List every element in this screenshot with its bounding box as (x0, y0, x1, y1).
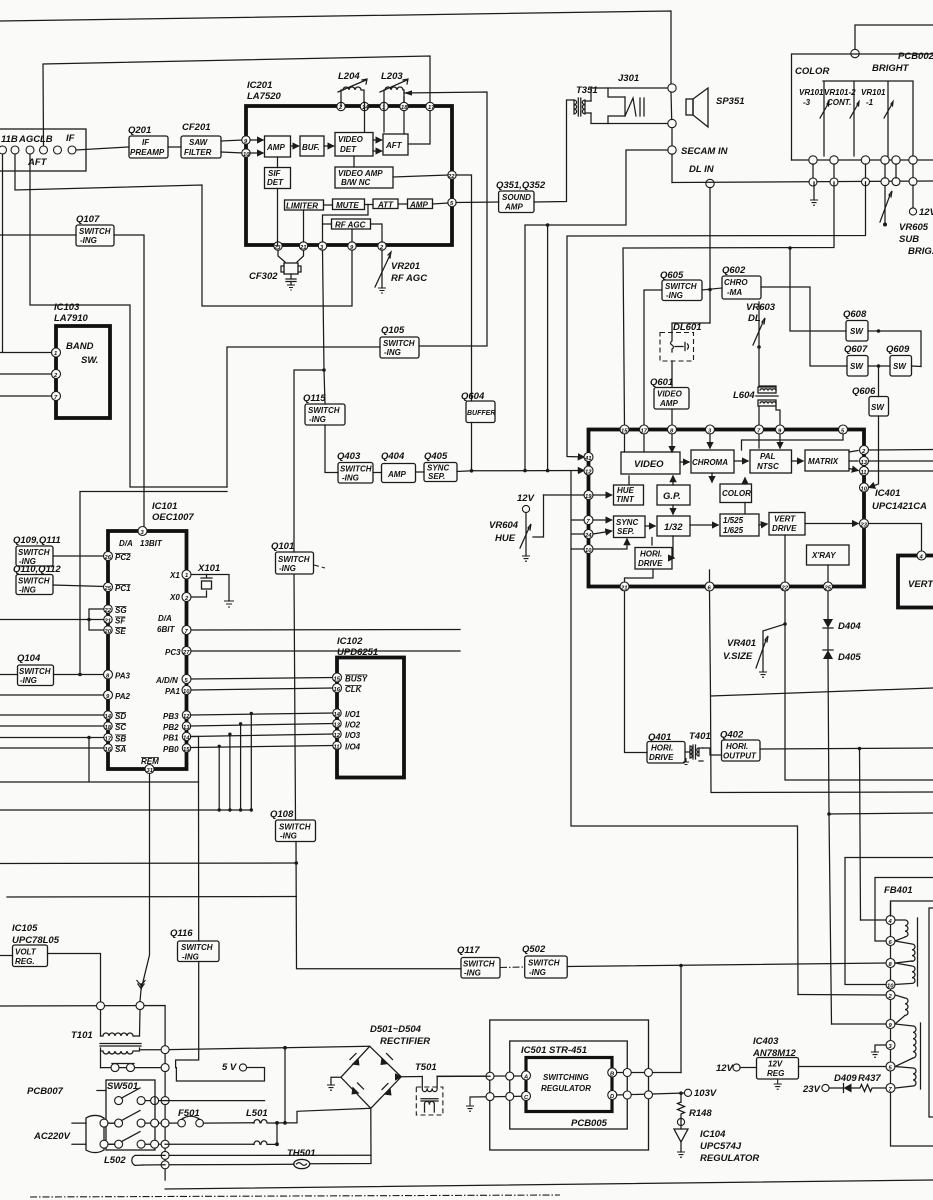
potentiometer VR101-2 contrast (824, 82, 859, 156)
svg-text:PAL: PAL (760, 452, 776, 461)
diode D409 (829, 1073, 857, 1093)
svg-text:B/W NC: B/W NC (341, 178, 371, 187)
wire Q117 Q502 link (500, 966, 525, 969)
terminal 12V left (716, 1063, 757, 1074)
svg-text:SYNC: SYNC (616, 518, 638, 527)
wire rgb outputs right (869, 450, 933, 472)
wire Q108 down to Q117 (296, 842, 461, 969)
svg-text:COLOR: COLOR (795, 66, 829, 77)
svg-text:27: 27 (182, 650, 190, 656)
svg-text:SC: SC (115, 723, 126, 732)
svg-text:14: 14 (362, 105, 369, 111)
svg-text:Q110,Q112: Q110,Q112 (13, 564, 61, 575)
svg-text:VR605: VR605 (899, 222, 929, 233)
svg-text:SWITCH: SWITCH (528, 959, 560, 968)
svg-text:PB3: PB3 (163, 712, 179, 721)
svg-text:23: 23 (860, 523, 868, 529)
wire 6BIT PC3 stubs (191, 630, 460, 652)
node SECAM IN (668, 146, 729, 157)
flyback FB401 (884, 885, 913, 1093)
svg-text:SW: SW (850, 362, 864, 371)
amplifier Q351 Q352 sound amp (496, 180, 546, 213)
svg-text:PB0: PB0 (163, 745, 179, 754)
wire PA1 CLK link (191, 688, 333, 690)
wire PA2 feed (0, 694, 104, 696)
svg-text:SF: SF (115, 617, 126, 626)
svg-text:SEP.: SEP. (617, 527, 634, 536)
svg-text:CHROMA: CHROMA (692, 458, 728, 467)
svg-text:SB: SB (115, 735, 126, 744)
svg-text:PCB002: PCB002 (898, 51, 933, 62)
wire D line output 103V (617, 1093, 684, 1095)
transformer T501 (415, 1062, 457, 1115)
amplifier Q601 video amp (650, 377, 689, 409)
node Q108 bus junction (295, 861, 299, 865)
wire PB0 IO4 link (191, 746, 333, 748)
amp block in IC201 (265, 136, 291, 157)
svg-text:-1: -1 (866, 98, 874, 107)
power supply middle box (510, 1041, 628, 1129)
tuner block (0, 129, 86, 171)
svg-text:IF: IF (142, 138, 150, 147)
svg-text:VOLT: VOLT (15, 948, 37, 957)
fuse F501 (169, 1108, 254, 1127)
wire pin6 retrace rails (710, 591, 933, 793)
svg-text:L501: L501 (246, 1108, 268, 1119)
svg-text:21: 21 (104, 619, 111, 625)
filter CF201 SAW (181, 122, 221, 158)
transistor Q104 switching (17, 653, 54, 686)
svg-text:PREAMP: PREAMP (130, 148, 165, 157)
svg-text:103V: 103V (694, 1088, 717, 1099)
svg-text:BAND: BAND (66, 341, 94, 352)
svg-text:11B: 11B (1, 134, 18, 145)
svg-text:IC403: IC403 (753, 1036, 779, 1047)
svg-text:15: 15 (183, 747, 190, 753)
wire VR604 to pin19 (544, 494, 585, 496)
potentiometer VR603 DL (746, 302, 776, 386)
svg-text:Q109,Q111: Q109,Q111 (13, 535, 61, 546)
svg-text:VR401: VR401 (727, 638, 756, 649)
transistor Q109 Q111 switching (13, 535, 61, 566)
svg-text:PC1: PC1 (115, 584, 131, 593)
wire video line into IC401 pin12 (472, 470, 585, 472)
svg-text:PCB007: PCB007 (27, 1086, 64, 1097)
svg-text:Q117: Q117 (457, 945, 480, 956)
IC201 bottom pins (273, 242, 386, 251)
svg-text:REG: REG (767, 1069, 784, 1078)
node Q115 junction (322, 368, 326, 372)
svg-text:IC101: IC101 (152, 501, 177, 512)
svg-text:11: 11 (861, 470, 867, 476)
wire video aux vertical (547, 225, 549, 471)
wire IC105 out to T101 (48, 954, 101, 1002)
svg-text:HORI.: HORI. (726, 742, 748, 751)
svg-text:-ING: -ING (384, 348, 401, 357)
svg-text:VR603: VR603 (746, 302, 776, 313)
wire SECAM node to DL bus (671, 154, 673, 183)
svg-text:DL IN: DL IN (689, 164, 715, 175)
wire AGC loop top rail (43, 56, 430, 146)
wire DL IN bus (672, 181, 933, 183)
potentiometer VR101-1 (861, 82, 893, 156)
svg-text:-ING: -ING (464, 969, 481, 978)
svg-text:LB: LB (40, 134, 53, 145)
svg-text:BRIGHT: BRIGHT (872, 63, 910, 74)
wire bottom border (165, 1180, 933, 1189)
svg-text:R148: R148 (689, 1108, 712, 1119)
svg-text:VR101: VR101 (799, 88, 824, 97)
transistor Q606 switch (852, 386, 889, 416)
sync sep block in IC401 (614, 516, 646, 538)
transistor Q101 switching (271, 541, 325, 574)
svg-text:17: 17 (105, 737, 112, 743)
svg-text:-ING: -ING (19, 586, 36, 595)
IC402 vert output (898, 551, 933, 608)
svg-text:PA3: PA3 (115, 672, 131, 681)
svg-text:PCB005: PCB005 (571, 1118, 608, 1129)
antenna symbol REM connector (137, 980, 146, 990)
potentiometer VR201 RF AGC (375, 250, 427, 293)
svg-text:OUTPUT: OUTPUT (723, 752, 757, 761)
svg-text:SG: SG (115, 606, 127, 615)
wire Q104 to PA3 (54, 674, 105, 676)
svg-text:Q107: Q107 (76, 214, 100, 225)
wire pin22 flyback rail (785, 591, 933, 780)
ground FB pin3 (871, 1045, 886, 1057)
svg-text:D404: D404 (838, 621, 861, 632)
wire bus y810 (0, 809, 251, 811)
wire SECAM branch to video node (525, 150, 668, 471)
svg-text:16: 16 (105, 747, 112, 753)
svg-text:Q607: Q607 (844, 344, 868, 355)
filter CF302 (249, 250, 304, 290)
wire L501 to bridge bottom (277, 1108, 371, 1123)
svg-text:14: 14 (334, 712, 341, 718)
wire FB pin6 loop (875, 878, 933, 942)
wire Q104 input (0, 674, 18, 676)
svg-text:13BIT: 13BIT (140, 539, 163, 548)
FB401 winding lower (895, 1023, 921, 1089)
svg-text:J301: J301 (618, 73, 639, 84)
svg-text:L502: L502 (104, 1155, 126, 1166)
svg-text:Q108: Q108 (270, 809, 294, 820)
wire Q104 branch (80, 492, 227, 675)
FB401 right edge (929, 908, 933, 1117)
svg-text:13: 13 (861, 460, 868, 466)
rectifier D501-D504 bridge (341, 1024, 430, 1108)
wire REM down to T101 (140, 774, 150, 1002)
divider 1/32 block in IC401 (657, 516, 690, 536)
svg-text:10: 10 (243, 152, 250, 158)
wire bus y896 (7, 896, 296, 899)
IC401 UPC1421CA (589, 430, 928, 587)
svg-text:VR101: VR101 (861, 88, 886, 97)
wire Q607 to Q609 (868, 365, 890, 367)
IC101 OEC1007 (108, 501, 194, 769)
svg-text:Q404: Q404 (381, 451, 405, 462)
switch SW501 pole1 (115, 1088, 146, 1105)
svg-text:Q601: Q601 (650, 377, 673, 388)
svg-text:RECTIFIER: RECTIFIER (380, 1036, 430, 1047)
transistor Q405 sync sep (424, 451, 457, 482)
svg-text:AMP: AMP (387, 470, 406, 479)
svg-text:IF: IF (66, 133, 75, 144)
svg-text:10: 10 (887, 984, 894, 990)
svg-text:12V: 12V (716, 1063, 734, 1074)
transistor Q404 amp (381, 451, 416, 483)
vert drive block in IC401 (769, 513, 805, 536)
svg-text:AMP: AMP (504, 203, 523, 212)
terminal 12V top right (909, 185, 933, 218)
svg-text:I/O4: I/O4 (345, 743, 361, 752)
svg-text:SECAM IN: SECAM IN (681, 146, 729, 157)
wire L502 rail (169, 1154, 371, 1156)
svg-text:DRIVE: DRIVE (649, 753, 674, 762)
wire Q109 to PC2 (53, 555, 104, 557)
terminal 5V (176, 1062, 264, 1081)
IC102 UPD6251 (333, 636, 405, 778)
chroma block in IC401 (691, 450, 734, 473)
svg-text:SWITCH: SWITCH (308, 406, 340, 415)
svg-text:14: 14 (105, 714, 112, 720)
svg-text:CONT.: CONT. (827, 98, 851, 107)
xray block in IC401 (807, 545, 850, 565)
svg-text:OEC1007: OEC1007 (152, 512, 194, 523)
svg-text:Q608: Q608 (843, 309, 867, 320)
wire SG SF SE bracket (0, 609, 104, 630)
transistor Q201 IF preamp (128, 125, 168, 158)
svg-text:-ING: -ING (80, 236, 97, 245)
svg-text:-3: -3 (803, 98, 811, 107)
svg-text:R437: R437 (858, 1073, 881, 1084)
pal ntsc block in IC401 (750, 450, 792, 473)
wire tuner AGC slant to IC201 pin4 (15, 154, 352, 306)
divider 1/525 1/625 block in IC401 (720, 514, 759, 536)
svg-text:SW: SW (893, 362, 907, 371)
svg-text:PB2: PB2 (163, 723, 179, 732)
svg-text:SOUND: SOUND (502, 193, 531, 202)
transistor Q110 Q112 switching (13, 564, 61, 595)
svg-text:-ING: -ING (20, 676, 37, 685)
svg-text:Q403: Q403 (337, 451, 361, 462)
transformer T351 (574, 85, 598, 116)
svg-text:BUSY: BUSY (345, 675, 368, 684)
svg-text:-ING: -ING (182, 953, 199, 962)
wire FB pin4 left (861, 919, 887, 921)
transistor Q116 switching (170, 928, 219, 962)
AFT block in IC201 (383, 134, 408, 155)
svg-text:SWITCH: SWITCH (279, 823, 311, 832)
transistor Q107 switching (76, 214, 114, 246)
svg-text:5 V: 5 V (222, 1062, 237, 1073)
svg-text:12: 12 (183, 714, 190, 720)
wire hori out drop to FB401 pin4 (860, 749, 861, 921)
wire Q403 to Q404 (373, 472, 382, 474)
wire chroma tap C (623, 182, 834, 427)
svg-text:FB401: FB401 (884, 885, 913, 896)
transformer T101 (71, 1010, 165, 1068)
wire B line output (617, 1072, 681, 1074)
coil L203 (380, 71, 408, 102)
IC401 left pins (584, 453, 593, 555)
ground on DL bus (813, 182, 815, 200)
speaker SP351 (686, 88, 745, 127)
thermistor TH501 (169, 1108, 371, 1168)
transistor Q608 switch (843, 309, 868, 341)
wire sync feeds vertical (571, 471, 584, 549)
coil L502 (104, 1155, 165, 1166)
IC101 pin3 top (138, 527, 147, 536)
wire Q605 to Q602 (702, 288, 722, 290)
terminal 12V hue (517, 493, 535, 513)
wire DL601 top tap (672, 323, 710, 333)
svg-text:LA7520: LA7520 (247, 91, 282, 102)
svg-text:REGULATOR: REGULATOR (700, 1153, 759, 1164)
potentiometer VR605 sub bright (880, 186, 933, 258)
switch SW501 pole3 (109, 1132, 161, 1149)
resistor R148 (678, 1093, 713, 1119)
IC201 side pins (242, 136, 456, 207)
svg-text:SWITCH: SWITCH (79, 227, 111, 236)
svg-text:18: 18 (401, 105, 408, 111)
wire Q602 out loop to Q607 (761, 287, 847, 366)
regulator IC403 AN78M12 (752, 1036, 799, 1089)
buffer block in IC201 (300, 136, 324, 156)
svg-text:22: 22 (104, 608, 112, 614)
svg-text:25: 25 (104, 586, 112, 592)
svg-text:PC2: PC2 (115, 553, 131, 562)
svg-text:SWITCH: SWITCH (18, 548, 50, 557)
crystal X101 (169, 563, 234, 607)
svg-text:MUTE: MUTE (336, 201, 359, 210)
resistor R437 (852, 1073, 887, 1092)
svg-text:IC501 STR-451: IC501 STR-451 (521, 1045, 587, 1056)
svg-text:SIF: SIF (268, 169, 282, 178)
wire sound amp to T351 (534, 100, 574, 202)
video det block in IC201 (335, 133, 373, 157)
svg-text:1: 1 (185, 573, 188, 579)
wire bridge to T501 (401, 1076, 422, 1078)
wire C line ground (470, 1095, 522, 1098)
wire Q608 input (790, 248, 846, 331)
svg-text:SWITCH: SWITCH (383, 339, 415, 348)
svg-text:Q101: Q101 (271, 541, 294, 552)
mute block (333, 199, 365, 210)
wire DL601 to Q601 (671, 361, 673, 387)
wire Q110 to PC1 (53, 585, 104, 587)
transistor Q108 switching (270, 809, 316, 842)
wire Q605 input drop to IC401 (644, 290, 662, 427)
svg-text:I/O3: I/O3 (345, 731, 361, 740)
IC401 bottom pins (620, 582, 833, 592)
svg-text:11: 11 (334, 745, 340, 751)
svg-text:PC3: PC3 (165, 648, 181, 657)
IC201 internal wires (250, 139, 263, 141)
svg-text:18: 18 (105, 725, 112, 731)
wire Q608 output (868, 331, 921, 367)
wire 5V rail (169, 1046, 370, 1049)
svg-text:DRIVE: DRIVE (638, 559, 663, 568)
svg-text:IC201: IC201 (247, 80, 272, 91)
svg-text:CF302: CF302 (249, 271, 278, 282)
svg-text:CHRO: CHRO (724, 278, 748, 287)
svg-text:-ING: -ING (342, 474, 359, 483)
svg-text:L204: L204 (338, 71, 360, 82)
IC201 top pins (337, 102, 435, 111)
transistor Q117 switching (457, 945, 500, 978)
rf agc block (332, 219, 371, 229)
transistor Q105 switching (380, 325, 419, 358)
transformer T401 (683, 731, 711, 765)
gp block in IC401 (657, 485, 690, 505)
svg-text:BUFFER: BUFFER (467, 410, 495, 417)
hori drive block in IC401 (635, 548, 672, 570)
IC501 STR-451 (521, 1045, 617, 1129)
svg-text:1/32: 1/32 (664, 522, 683, 533)
wire IC201 pin5 to sound amp (456, 201, 499, 204)
video amp B/W NC block in IC201 (335, 167, 393, 188)
svg-text:I/O1: I/O1 (345, 710, 361, 719)
svg-text:SAW: SAW (189, 138, 209, 147)
ground C line (466, 1097, 474, 1111)
svg-text:Q602: Q602 (722, 265, 746, 276)
svg-text:PA2: PA2 (115, 692, 131, 701)
svg-text:TH501: TH501 (287, 1148, 316, 1159)
junction circles power rail (161, 1046, 169, 1054)
svg-text:HUE: HUE (617, 486, 635, 495)
wire FB pin2 left (798, 994, 886, 997)
svg-text:CLK: CLK (345, 685, 363, 694)
svg-text:SWITCH: SWITCH (181, 943, 213, 952)
svg-text:-ING: -ING (529, 968, 546, 977)
svg-text:BUF.: BUF. (302, 143, 320, 152)
svg-text:SA: SA (115, 745, 126, 754)
svg-text:X101: X101 (197, 563, 220, 574)
svg-text:A: A (523, 1075, 528, 1081)
svg-text:AFT: AFT (385, 141, 403, 150)
svg-text:ATT: ATT (377, 201, 394, 210)
wire D405 down to FB rails (828, 659, 832, 1024)
svg-text:REGULATOR: REGULATOR (541, 1084, 591, 1093)
wire Q201 to CF201 (168, 146, 181, 148)
amp2 block (408, 199, 433, 209)
svg-text:-ING: -ING (666, 291, 683, 300)
wire Q101 to Q108 (294, 575, 296, 821)
svg-text:T101: T101 (71, 1030, 93, 1041)
wire FB pin9 left (832, 1023, 887, 1025)
delay line DL601 (660, 322, 702, 361)
svg-text:X0: X0 (169, 593, 180, 602)
svg-text:AMP: AMP (266, 143, 285, 152)
svg-text:SUB: SUB (899, 234, 919, 245)
wire pot top rail (823, 81, 913, 156)
hue tint block in IC401 (614, 485, 644, 505)
wire Q502 to FB401 pin8 (567, 963, 886, 967)
svg-text:12V: 12V (919, 207, 933, 218)
svg-text:VR604: VR604 (489, 520, 519, 531)
svg-text:G.P.: G.P. (663, 491, 681, 502)
PCB002 control panel (792, 25, 933, 178)
svg-text:VERT: VERT (908, 579, 933, 590)
wire IO1 link (191, 713, 333, 715)
IC201 LA7520 (246, 80, 452, 245)
video block in IC401 (621, 452, 680, 474)
svg-text:12: 12 (334, 733, 341, 739)
svg-text:AGC: AGC (18, 134, 40, 145)
SIF det block in IC201 (265, 168, 291, 189)
wire Q601 to IC401 pin8 (671, 409, 673, 427)
